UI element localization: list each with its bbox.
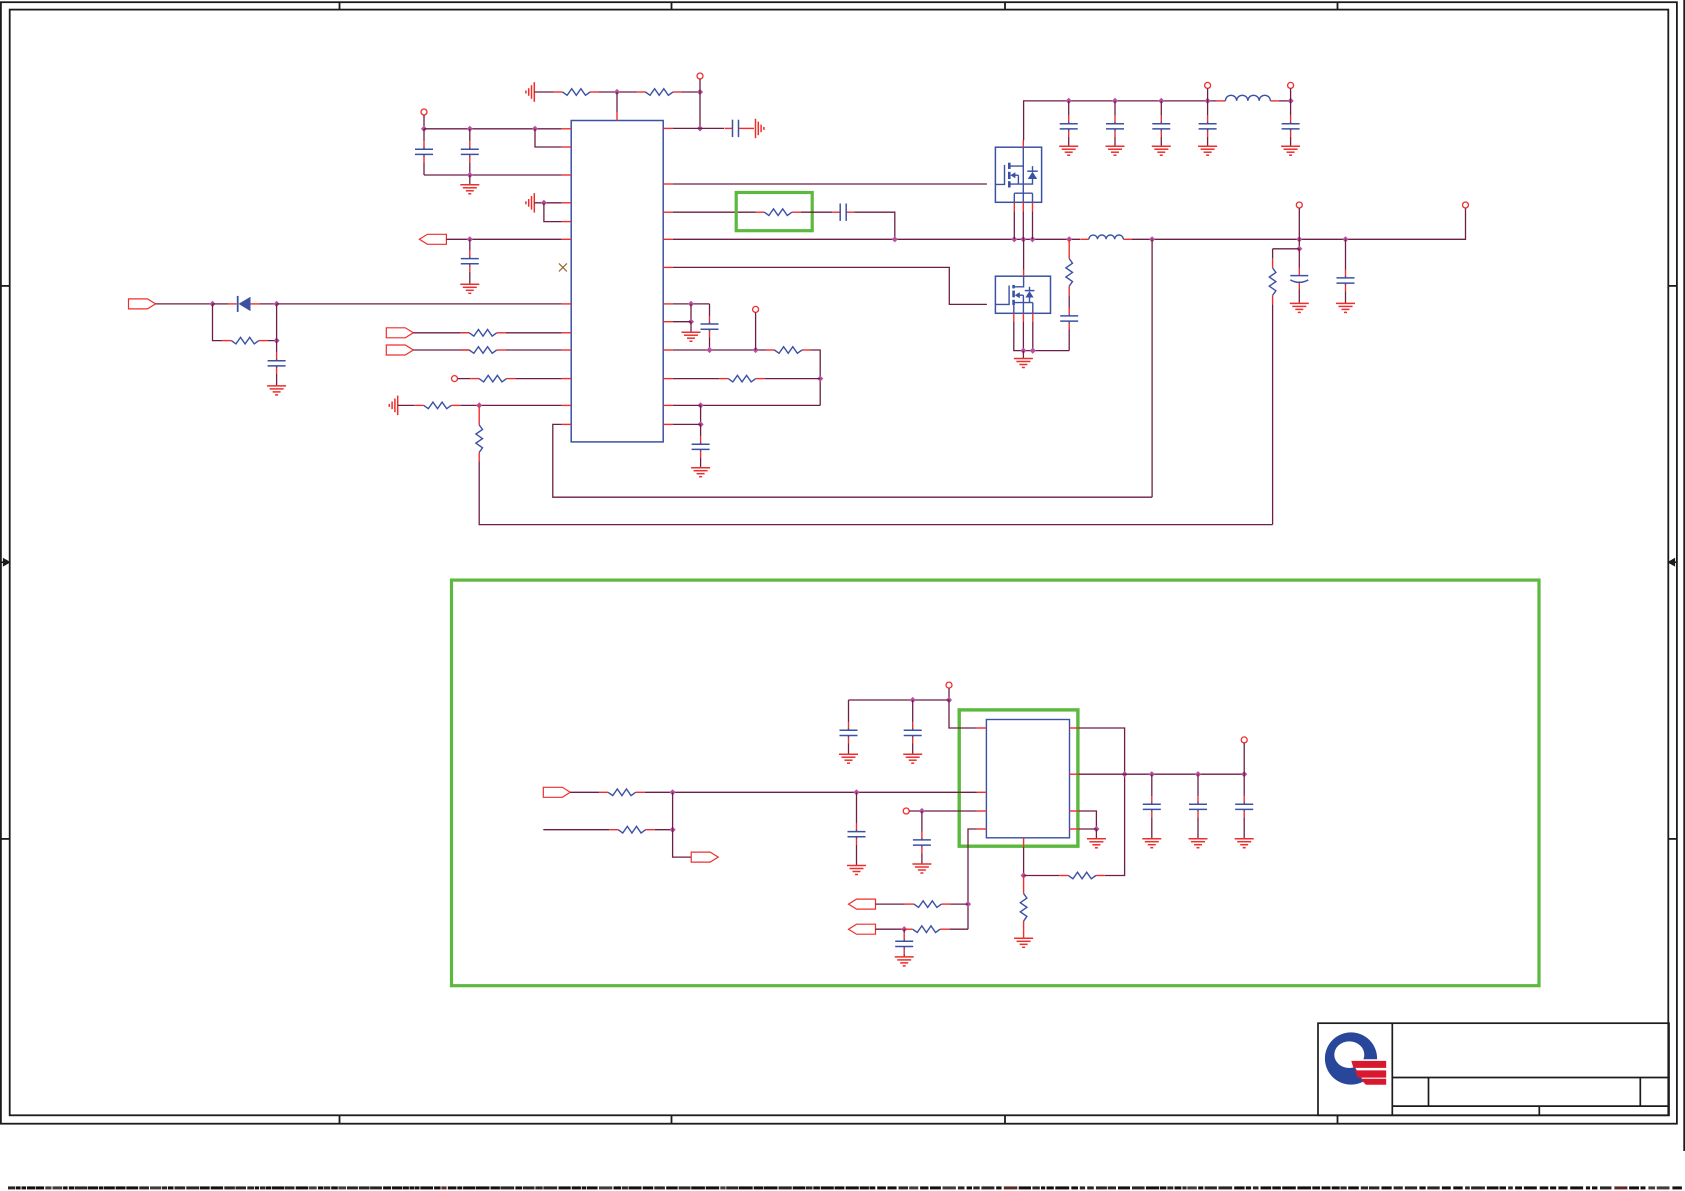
regulator U2 bbox=[986, 720, 1069, 838]
wire bbox=[599, 91, 637, 93]
ground (sideways) bbox=[526, 193, 534, 213]
wire SW to Q2 drain bbox=[1023, 239, 1025, 269]
ground bbox=[1106, 146, 1125, 155]
junction bbox=[541, 200, 547, 206]
highlight box (green) bbox=[736, 193, 812, 231]
U1 left pin stubs bbox=[562, 129, 572, 425]
junction bbox=[1030, 348, 1036, 354]
wire (to snubber R in green box) bbox=[673, 211, 756, 213]
highlight box (green, around U2) bbox=[959, 710, 1078, 846]
junction bbox=[1158, 98, 1164, 104]
op-amp/controller U1 bbox=[571, 121, 663, 442]
junction bbox=[209, 301, 215, 307]
terminal TP4 bbox=[753, 306, 759, 312]
U2 left pin stubs bbox=[977, 728, 987, 829]
junction bbox=[697, 89, 703, 95]
wire bbox=[506, 349, 562, 351]
capacitor C3 bbox=[725, 120, 747, 137]
resistor R4 bbox=[460, 330, 506, 337]
resistor R18 bbox=[1059, 872, 1105, 879]
terminal VIN2 bbox=[946, 682, 952, 688]
wire bbox=[534, 202, 561, 204]
terminal VOUT3 bbox=[1241, 737, 1247, 743]
terminal VOUT bbox=[1296, 202, 1302, 208]
junction bbox=[1149, 236, 1155, 242]
junction bbox=[1288, 98, 1294, 104]
ground bbox=[1142, 839, 1161, 848]
wire bbox=[1298, 239, 1300, 249]
ground bbox=[847, 866, 866, 875]
wire bbox=[690, 304, 692, 322]
wire bbox=[516, 378, 562, 380]
wire bbox=[1207, 88, 1209, 101]
junction bbox=[1011, 236, 1017, 242]
ground (sideways) bbox=[389, 396, 397, 416]
ground bbox=[460, 175, 479, 194]
capacitor C8 bbox=[692, 424, 710, 467]
wire bbox=[854, 212, 895, 239]
wire bbox=[673, 830, 692, 857]
wire bbox=[413, 332, 469, 334]
resistor R1 bbox=[554, 89, 600, 96]
terminal TP2 bbox=[421, 109, 427, 115]
wire bbox=[948, 688, 950, 700]
U1 top pin stub bbox=[616, 112, 618, 121]
wire bbox=[506, 332, 562, 334]
highlight box (green, outer) bbox=[452, 580, 1540, 986]
wire bbox=[1290, 88, 1292, 101]
junction bbox=[1296, 236, 1302, 242]
junction bbox=[1066, 236, 1072, 242]
junction bbox=[670, 827, 676, 833]
ground bbox=[691, 468, 710, 477]
ground (sideways right) bbox=[756, 119, 764, 139]
wire bbox=[765, 378, 820, 380]
wire bbox=[672, 792, 674, 829]
capacitor C15 (polarized) bbox=[1290, 249, 1308, 303]
capacitor C4 bbox=[461, 239, 479, 284]
ground bbox=[1014, 938, 1033, 947]
wire bbox=[876, 903, 905, 905]
wire bbox=[811, 350, 820, 405]
junction bbox=[1296, 246, 1302, 252]
junction bbox=[1029, 236, 1035, 242]
ground (sideways) for R1 bbox=[526, 82, 534, 102]
ground bbox=[1087, 829, 1106, 848]
resistor R19 (vertical) bbox=[1020, 876, 1027, 939]
wire bbox=[1273, 248, 1300, 250]
junction bbox=[919, 808, 925, 814]
capacitor C11 bbox=[1152, 101, 1170, 146]
ground bbox=[1281, 146, 1300, 155]
capacitor C5 bbox=[268, 341, 286, 386]
U2 bottom pin stub bbox=[1023, 838, 1025, 848]
junction bbox=[1342, 236, 1348, 242]
junction bbox=[421, 126, 427, 132]
resistor R9 (boot) bbox=[755, 209, 801, 216]
wire bbox=[699, 92, 701, 128]
wire bbox=[276, 304, 278, 341]
capacitor C16 bbox=[1337, 239, 1355, 303]
terminal TP3 bbox=[452, 376, 458, 382]
wire feedback bottom bbox=[479, 461, 1272, 524]
wire bbox=[1079, 728, 1125, 876]
resistor R8 (feedback lower) bbox=[476, 405, 483, 461]
capacitor C24 bbox=[1235, 774, 1253, 838]
wire bbox=[1024, 875, 1060, 877]
wire bbox=[655, 829, 673, 831]
junction bbox=[946, 697, 952, 703]
wire bbox=[534, 91, 553, 93]
wire bbox=[1151, 239, 1153, 497]
junction bbox=[817, 376, 823, 382]
terminal VOUT2 bbox=[1463, 202, 1469, 208]
wire bbox=[398, 404, 415, 406]
junction bbox=[467, 236, 473, 242]
junction bbox=[910, 697, 916, 703]
junction bbox=[532, 126, 538, 132]
resistor R15 bbox=[609, 826, 655, 833]
capacitor C12 bbox=[1199, 101, 1217, 146]
capacitor C9 bbox=[1060, 101, 1078, 146]
resistor R17 bbox=[904, 926, 950, 933]
wire bbox=[801, 211, 832, 213]
wire bbox=[673, 378, 720, 380]
wire output bus bbox=[1125, 773, 1245, 775]
wire bbox=[1243, 743, 1245, 774]
junction bbox=[1066, 98, 1072, 104]
resistor R12 (snubber) bbox=[1066, 239, 1073, 295]
resistor R16 bbox=[905, 901, 951, 908]
junction bbox=[670, 789, 676, 795]
wire bbox=[268, 340, 277, 342]
wire Q2 sources to PGND bbox=[1014, 322, 1069, 351]
resistor R11 bbox=[719, 375, 765, 382]
wire bbox=[1079, 773, 1125, 775]
flag CTRL1 bbox=[386, 328, 413, 338]
wire bbox=[156, 303, 213, 305]
flag FB1 bbox=[849, 899, 876, 909]
wire bbox=[543, 829, 609, 831]
junction bbox=[614, 89, 620, 95]
wire (U2 bottom pin) bbox=[1023, 847, 1025, 875]
junction bbox=[1093, 826, 1099, 832]
diode D1 bbox=[213, 296, 277, 312]
transistor Q2 bbox=[995, 270, 1050, 323]
resistor R6 bbox=[470, 375, 515, 382]
inductor L1 bbox=[1217, 95, 1279, 101]
wire U1 pin24 loop bbox=[553, 424, 1152, 497]
capacitor C21 bbox=[895, 929, 913, 956]
capacitor C20 bbox=[913, 811, 931, 864]
capacitor C13 bbox=[1282, 101, 1300, 146]
wire (junction to U1 top pin) bbox=[616, 92, 618, 112]
ground bbox=[895, 957, 914, 966]
wire bbox=[446, 238, 561, 240]
wire bbox=[645, 791, 977, 793]
resistor R10 bbox=[766, 347, 812, 354]
junction bbox=[1112, 98, 1118, 104]
wire bbox=[458, 378, 471, 380]
ground bbox=[1189, 839, 1208, 848]
terminal TP5 bbox=[1288, 82, 1294, 88]
wire bbox=[673, 404, 701, 406]
wire bbox=[755, 312, 757, 350]
resistor R13 (feedback top) bbox=[1269, 249, 1276, 525]
junction bbox=[1020, 348, 1026, 354]
resistor R7 bbox=[415, 402, 460, 409]
wire bbox=[1298, 208, 1300, 239]
wire bbox=[700, 405, 702, 424]
ground bbox=[1336, 303, 1355, 312]
junction bbox=[698, 402, 704, 408]
capacitor C23 bbox=[1189, 774, 1207, 838]
wire bbox=[949, 700, 977, 728]
junction bbox=[274, 301, 280, 307]
wire switch node bus bbox=[673, 238, 1080, 240]
junction bbox=[698, 421, 704, 427]
wire bbox=[951, 903, 969, 905]
capacitor C18 bbox=[904, 700, 922, 754]
ground bbox=[267, 386, 286, 395]
junction bbox=[1205, 98, 1211, 104]
flag VIN bbox=[129, 299, 156, 309]
wire gate drive HS bbox=[673, 183, 987, 185]
wire switch node to output bbox=[1132, 208, 1466, 239]
junction bbox=[476, 402, 482, 408]
ground bbox=[903, 754, 922, 763]
flag SNS bbox=[691, 852, 718, 862]
junction bbox=[1149, 771, 1155, 777]
junction bbox=[753, 347, 759, 353]
wire Q1 sources to SW bbox=[1014, 212, 1032, 240]
junction bbox=[697, 125, 703, 131]
wire bbox=[1079, 828, 1096, 830]
wire comp row bbox=[673, 349, 766, 351]
junction bbox=[688, 319, 694, 325]
wire bbox=[673, 423, 701, 425]
ground bbox=[682, 322, 701, 342]
wire bbox=[682, 91, 700, 93]
junction bbox=[467, 172, 473, 178]
capacitor C1 bbox=[415, 129, 433, 175]
capacitor C10 bbox=[1106, 101, 1124, 146]
flag CTRL2 bbox=[386, 345, 413, 355]
flag FB2 bbox=[849, 924, 876, 934]
ground bbox=[1235, 839, 1254, 848]
terminal TP6 bbox=[903, 808, 909, 814]
wire (bypass loop) bbox=[535, 129, 562, 147]
transistor Q1 bbox=[995, 141, 1041, 212]
ground bbox=[1290, 303, 1309, 312]
capacitor C7 bbox=[701, 304, 719, 350]
capacitor C19 bbox=[848, 792, 866, 865]
wire ground rail bbox=[424, 174, 562, 176]
wire bbox=[673, 321, 691, 323]
wire (U2 pin 11 gnd) bbox=[1079, 811, 1096, 829]
capacitor C17 bbox=[840, 700, 858, 754]
resistor R5 bbox=[460, 347, 506, 354]
wire bbox=[699, 79, 701, 92]
wire bbox=[1279, 100, 1291, 102]
flag EN (output) bbox=[419, 234, 446, 244]
capacitor C22 bbox=[1143, 774, 1161, 838]
junction bbox=[1122, 771, 1128, 777]
junction bbox=[706, 347, 712, 353]
no-connect pin 7 bbox=[559, 263, 567, 271]
junction bbox=[1021, 872, 1027, 878]
wire bbox=[747, 127, 755, 129]
wire bbox=[701, 404, 821, 406]
junction bbox=[965, 901, 971, 907]
junction bbox=[467, 126, 473, 132]
wire PVIN bus bbox=[1024, 101, 1217, 141]
resistor R3 bbox=[222, 337, 268, 344]
wire input cap bus bbox=[849, 699, 950, 701]
wire VIN to U1 bbox=[277, 303, 562, 305]
ground bbox=[1198, 146, 1217, 155]
wire bbox=[949, 928, 968, 930]
terminal PVIN bbox=[1205, 82, 1211, 88]
U1 right pin stubs bbox=[663, 128, 673, 424]
ground bbox=[1014, 351, 1033, 368]
ground bbox=[912, 864, 931, 873]
junction bbox=[1195, 771, 1201, 777]
ground bbox=[1152, 146, 1171, 155]
junction bbox=[688, 301, 694, 307]
ground bbox=[460, 284, 479, 293]
wire bbox=[413, 349, 469, 351]
wire bbox=[423, 115, 425, 129]
terminal TP1 bbox=[697, 73, 703, 79]
junction bbox=[892, 236, 898, 242]
flag EN2 bbox=[543, 787, 570, 797]
wire bbox=[876, 928, 904, 930]
resistor R14 bbox=[599, 789, 645, 796]
capacitor C14 (snubber) bbox=[1060, 295, 1078, 350]
inductor L2 bbox=[1080, 235, 1131, 239]
wire bbox=[544, 203, 562, 222]
ground bbox=[839, 754, 858, 763]
wire bbox=[213, 304, 223, 341]
wire VDD bus bbox=[424, 128, 562, 130]
junction bbox=[1241, 771, 1247, 777]
junction bbox=[1020, 236, 1026, 242]
junction bbox=[901, 926, 907, 932]
wire gate drive LS bbox=[673, 267, 987, 304]
resistor R2 bbox=[637, 89, 683, 96]
wire bbox=[909, 810, 977, 812]
wire (U1 pin to node) bbox=[673, 127, 724, 129]
wire bbox=[673, 303, 710, 305]
wire (U2 pin4 to divider) bbox=[968, 829, 977, 929]
U2 right pin stubs bbox=[1070, 728, 1080, 829]
wire bbox=[460, 404, 561, 406]
junction bbox=[274, 338, 280, 344]
junction bbox=[853, 789, 859, 795]
wire bbox=[570, 791, 599, 793]
capacitor C2 bbox=[461, 129, 479, 175]
ground bbox=[1059, 146, 1078, 155]
capacitor C6 (boot) bbox=[832, 204, 854, 221]
